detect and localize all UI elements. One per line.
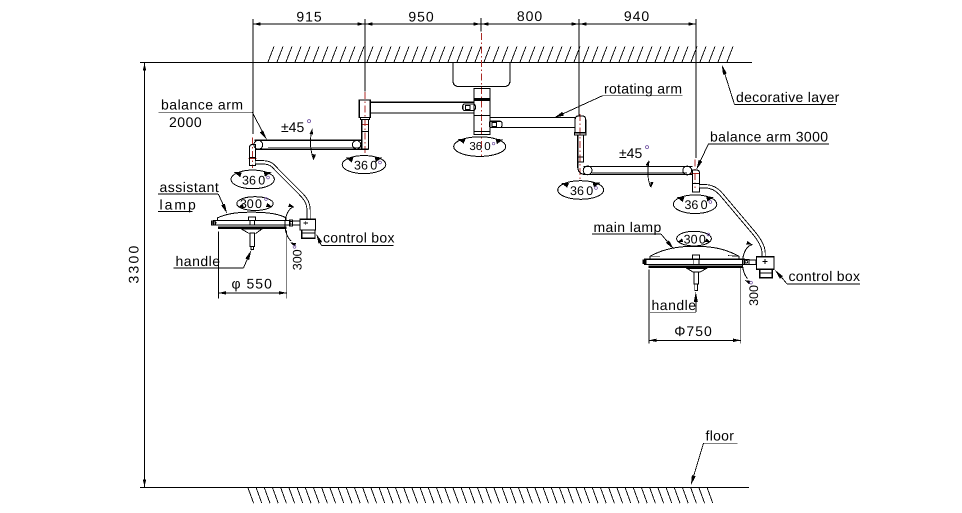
extension line x696 <box>695 19 697 158</box>
left 300 arrows <box>238 204 244 208</box>
rotating arm leader <box>558 96 603 117</box>
balance arm 2000 inner line <box>268 146 362 148</box>
floor underline <box>704 442 738 444</box>
svg-text:balance arm 3000: balance arm 3000 <box>710 129 828 145</box>
phi550 dim line <box>218 292 286 294</box>
hub divider 2 <box>474 131 490 133</box>
centerline left connector <box>364 92 366 154</box>
centerline tick left arm end <box>249 158 257 160</box>
balance arm 2000 right pivot circle <box>352 141 360 149</box>
rotating arm left top line <box>370 101 474 103</box>
svg-text:°: ° <box>594 184 599 198</box>
right 360 ellipse A <box>558 181 604 200</box>
phi550 arrows <box>218 291 226 294</box>
mid 360 ellipse <box>342 156 386 174</box>
svg-text:°: ° <box>708 198 713 212</box>
arrowheads dim 3300 <box>143 63 146 71</box>
hub divider 1 <box>474 115 490 117</box>
hub 360 ellipse <box>454 137 506 157</box>
centerline tick right arm end <box>691 173 699 175</box>
centerline right connector <box>579 114 581 180</box>
left swing arc <box>310 130 313 160</box>
left tube joint line <box>362 131 369 133</box>
svg-text:control box: control box <box>323 229 395 245</box>
left end block <box>249 144 255 165</box>
left C-arc <box>285 207 294 241</box>
left control box bottom <box>302 230 315 238</box>
balance arm 3000 left pivot circle <box>583 166 592 175</box>
balance arm 3000 top line <box>584 165 693 167</box>
floor hatch <box>248 488 713 503</box>
svg-text:Φ750: Φ750 <box>674 323 713 339</box>
right C-arc arrows <box>746 241 752 245</box>
extension line x579 <box>578 19 580 116</box>
svg-text:°: ° <box>491 141 496 153</box>
right control box top <box>757 257 775 269</box>
centerline hub <box>480 33 482 156</box>
svg-text:915: 915 <box>296 9 322 25</box>
assistant lamp thick line <box>218 226 287 229</box>
main lamp rim left cap <box>643 260 647 265</box>
clamp on right arm <box>489 121 502 127</box>
left connector flange <box>360 117 369 119</box>
balance arm 3000 right pivot circle <box>683 166 692 175</box>
right yoke <box>744 259 749 264</box>
control box underline left <box>322 245 394 247</box>
svg-text:°: ° <box>706 231 711 245</box>
svg-text:0: 0 <box>586 184 593 198</box>
svg-text:rotating arm: rotating arm <box>604 81 682 97</box>
svg-text:36: 36 <box>242 173 256 187</box>
left connector tube <box>362 120 369 149</box>
rotating arm left bottom line <box>370 112 474 114</box>
right 360 A arrows <box>561 183 569 188</box>
left spring arm <box>255 162 308 219</box>
main lamp thick line <box>648 265 742 268</box>
rotating arm underline <box>603 95 683 97</box>
svg-text:950: 950 <box>408 9 434 25</box>
right end block <box>692 170 699 192</box>
phi550 ext lines <box>217 232 219 299</box>
left swing arrows <box>310 128 313 134</box>
right swing arrows <box>646 160 650 166</box>
arrowheads dim 800 <box>481 22 489 25</box>
svg-text:±45: ±45 <box>619 145 642 161</box>
right elbow <box>578 162 586 175</box>
clamp on left arm <box>463 104 476 110</box>
left 300 ellipse <box>237 197 273 211</box>
hub column <box>474 89 490 135</box>
lamp underline <box>158 210 192 212</box>
svg-text:0: 0 <box>258 173 265 187</box>
assistant lamp rim <box>214 221 290 226</box>
main lamp dish <box>687 268 707 271</box>
balance arm 2000 left pivot circle <box>254 140 263 149</box>
right 300 ellipse <box>677 231 712 246</box>
left control box plus <box>304 222 309 224</box>
arrowheads dim 940 <box>579 22 587 25</box>
svg-text:0: 0 <box>370 158 377 172</box>
centerline left arm end <box>252 137 254 168</box>
svg-text:°: ° <box>644 142 650 158</box>
main lamp handle stem <box>694 272 699 284</box>
svg-text:main lamp: main lamp <box>594 219 662 235</box>
svg-text:0: 0 <box>701 198 708 212</box>
balance arm 3000 leader <box>698 144 709 167</box>
assistant leader <box>218 194 226 211</box>
right 360 ellipse B <box>673 195 716 214</box>
balance arm 3000 bottom line <box>586 174 692 176</box>
rotating arm right bottom line <box>490 126 575 128</box>
svg-text:±45: ±45 <box>281 119 304 135</box>
svg-text:30: 30 <box>684 232 698 246</box>
control box leader left <box>318 238 322 246</box>
control box underline right <box>787 283 860 285</box>
svg-text:handle: handle <box>652 297 697 313</box>
main lamp knob <box>693 255 700 259</box>
ceiling line <box>140 61 752 63</box>
svg-text:decorative layer: decorative layer <box>736 89 840 105</box>
svg-text:30: 30 <box>240 197 254 211</box>
decorative layer leader <box>723 68 735 105</box>
svg-text:36: 36 <box>570 184 584 198</box>
svg-text:36: 36 <box>469 141 482 153</box>
hub thick band <box>474 98 490 101</box>
handle leader right <box>695 296 697 312</box>
handle underline right <box>650 311 696 313</box>
svg-text:floor: floor <box>706 428 735 444</box>
svg-text:assistant: assistant <box>160 179 220 195</box>
left yoke <box>290 220 293 226</box>
svg-text:800: 800 <box>517 8 543 24</box>
arrowheads dim 950 <box>365 22 373 25</box>
svg-text:300°: 300° <box>291 244 305 270</box>
phi750 arrows <box>649 339 657 342</box>
canopy <box>453 63 510 87</box>
hub 360 arrows <box>458 139 466 144</box>
assistant lamp knob <box>249 217 256 221</box>
phi750 ext lines <box>648 270 650 344</box>
control box leader right <box>778 273 788 284</box>
dim line 3300 <box>144 63 146 487</box>
svg-text:°: ° <box>306 116 312 132</box>
svg-text:handle: handle <box>176 253 221 269</box>
balance arm underline <box>159 111 253 113</box>
rotating arm right top line <box>490 117 575 119</box>
right connector block <box>575 116 586 133</box>
svg-text:lamp: lamp <box>160 196 198 212</box>
left 360 ellipse <box>231 170 274 189</box>
main lamp leader <box>661 234 672 247</box>
assistant lamp dome <box>217 212 286 220</box>
centerline right arm end <box>694 160 696 188</box>
svg-text:940: 940 <box>624 8 650 24</box>
svg-text:36: 36 <box>354 158 368 172</box>
svg-text:2000: 2000 <box>169 114 202 130</box>
svg-text:φ 550: φ 550 <box>232 276 273 292</box>
right C-arc <box>743 245 753 279</box>
arrowheads dim 915 <box>253 22 261 25</box>
svg-text:control box: control box <box>789 268 861 284</box>
extension line x481 <box>480 18 482 32</box>
right 300 arrows <box>678 238 684 242</box>
extension line x365 <box>364 19 366 92</box>
balance arm 2000 top line <box>255 139 362 141</box>
right end block joint <box>692 183 699 185</box>
svg-text:0: 0 <box>699 232 706 246</box>
left end block joint <box>249 156 255 158</box>
assistant lamp rim left cap <box>212 221 215 225</box>
assistant lamp dish <box>242 229 262 233</box>
assistant lamp handle stem <box>250 233 254 246</box>
decorative layer underline <box>735 104 837 106</box>
svg-text:36: 36 <box>684 198 698 212</box>
centerline tick left connector <box>362 123 370 125</box>
svg-text:300°: 300° <box>747 280 761 306</box>
handle underline left <box>174 267 244 269</box>
svg-text:3300: 3300 <box>126 244 142 284</box>
balance arm leader <box>252 112 264 136</box>
handle leader left <box>244 253 251 268</box>
right control box plus <box>763 261 768 263</box>
main lamp rim <box>644 259 744 264</box>
left 360 arrows <box>234 172 242 177</box>
extension line x253 <box>252 19 254 134</box>
svg-text:°: ° <box>378 158 383 172</box>
svg-text:°: ° <box>264 195 269 209</box>
right control box divider <box>760 272 773 274</box>
balance arm 3000 inner line <box>592 172 687 174</box>
svg-text:0: 0 <box>255 197 262 211</box>
svg-text:0: 0 <box>484 141 490 153</box>
right tube joint line <box>578 156 584 158</box>
mid 360 arrows <box>346 158 354 163</box>
balance arm 2000 bottom line <box>255 148 368 150</box>
main lamp underline <box>592 233 661 235</box>
left control box divider <box>302 232 315 234</box>
left connector block <box>359 100 370 117</box>
phi750 dim line <box>649 339 741 341</box>
floor line <box>140 486 749 488</box>
floor leader <box>692 443 704 481</box>
main lamp dome step R <box>728 255 739 258</box>
left C-arc arrows <box>288 204 294 208</box>
right spring arm <box>700 186 764 257</box>
main lamp dome step L <box>650 255 660 257</box>
main lamp dome <box>650 246 739 259</box>
right 360 B arrows <box>677 197 685 202</box>
right swing arc <box>648 161 651 187</box>
assistant underline <box>158 193 218 195</box>
dimension line top chain <box>253 23 696 25</box>
svg-text:balance arm: balance arm <box>161 97 244 113</box>
balance arm 3000 underline <box>709 143 830 145</box>
right connector tube <box>578 135 584 162</box>
right control box bottom <box>760 269 773 278</box>
right connector flange <box>575 133 587 135</box>
left control box top <box>300 219 316 230</box>
svg-text:°: ° <box>266 173 271 187</box>
ceiling hatch <box>268 47 733 63</box>
